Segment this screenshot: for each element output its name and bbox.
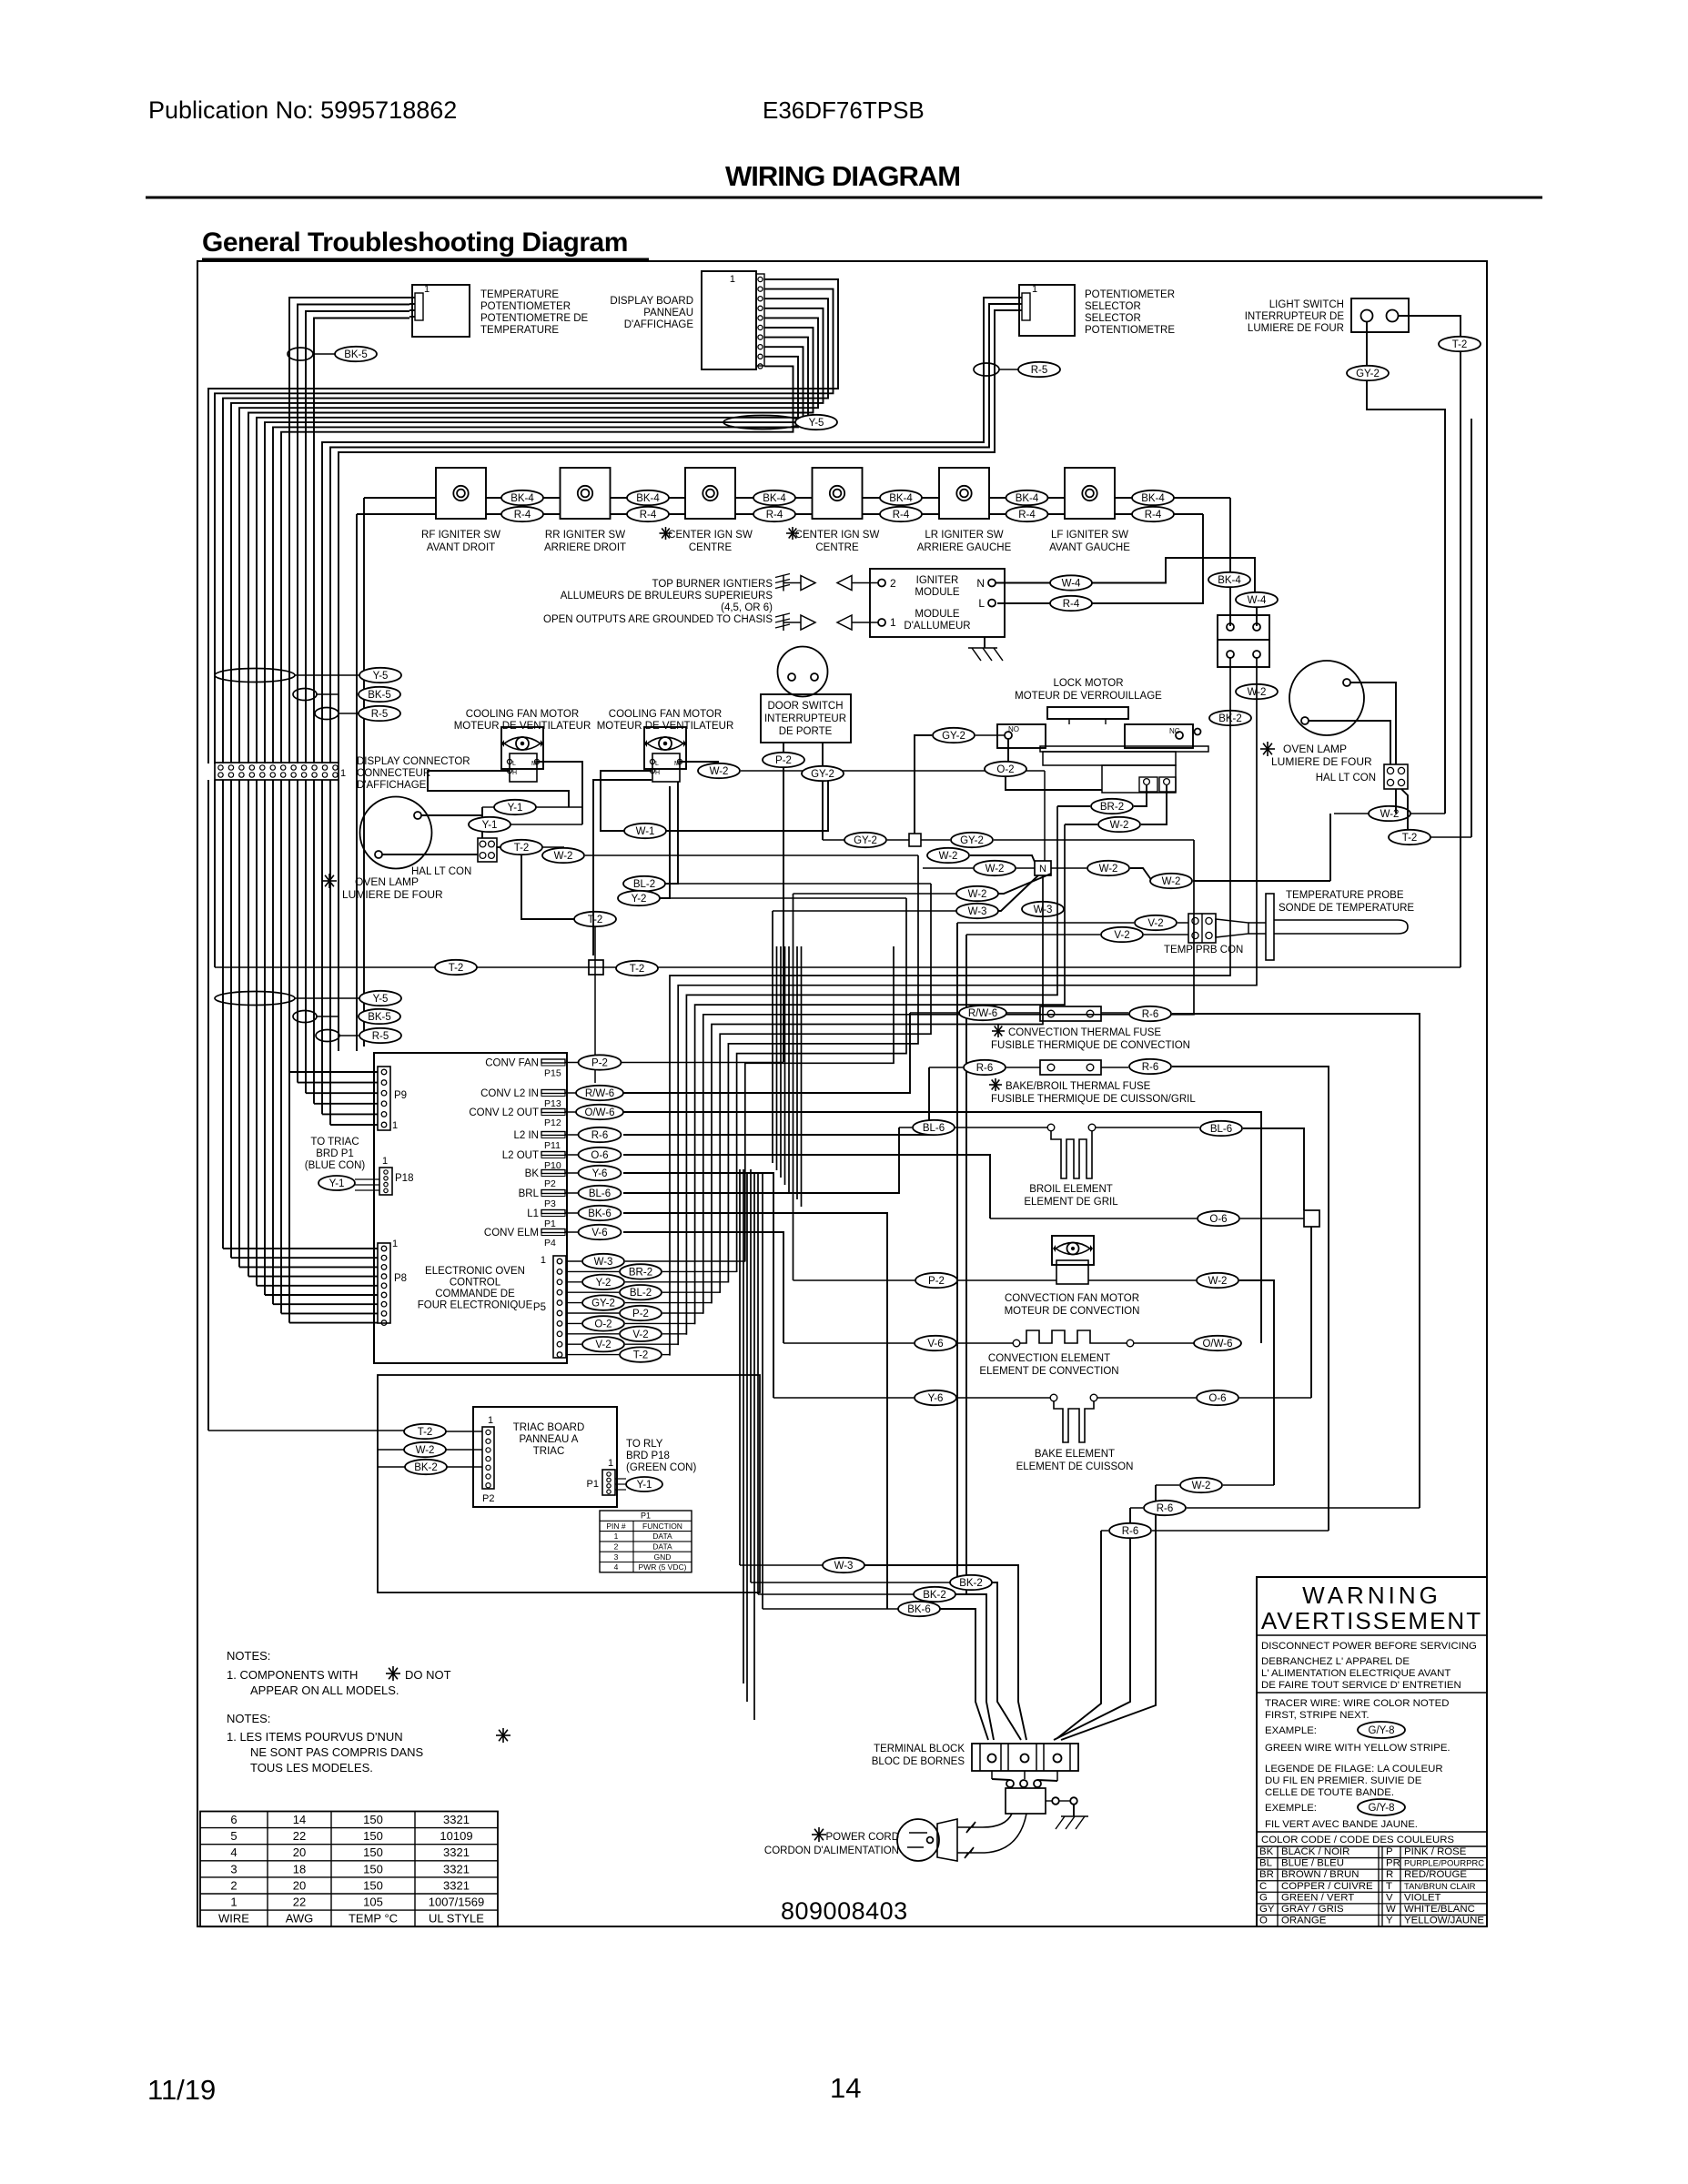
svg-text:T: T [1386, 1881, 1392, 1892]
svg-text:ELECTRONIC OVEN: ELECTRONIC OVEN [425, 1266, 525, 1277]
svg-text:COMMANDE DE: COMMANDE DE [435, 1289, 515, 1299]
svg-text:BROWN / BRUN: BROWN / BRUN [1281, 1869, 1359, 1880]
svg-text:W-2: W-2 [710, 766, 729, 777]
svg-text:BK-4: BK-4 [510, 493, 534, 504]
svg-text:MOTEUR DE VERROUILLAGE: MOTEUR DE VERROUILLAGE [1015, 691, 1162, 702]
svg-text:20: 20 [293, 1845, 306, 1859]
svg-text:Publication No: 5995718862: Publication No: 5995718862 [148, 96, 457, 124]
svg-text:V-6: V-6 [927, 1339, 943, 1350]
svg-text:GY-2: GY-2 [960, 835, 984, 846]
svg-text:22: 22 [293, 1829, 306, 1843]
svg-text:VIOLET: VIOLET [1404, 1892, 1441, 1903]
svg-text:PANNEAU A: PANNEAU A [520, 1434, 579, 1445]
svg-text:LUMIERE DE FOUR: LUMIERE DE FOUR [342, 888, 443, 901]
svg-text:P1: P1 [544, 1218, 556, 1229]
svg-text:R-5: R-5 [1031, 365, 1048, 376]
svg-text:TRIAC: TRIAC [533, 1446, 565, 1457]
svg-text:DO NOT: DO NOT [405, 1668, 451, 1682]
svg-text:PWR (5 VDC): PWR (5 VDC) [639, 1562, 687, 1572]
svg-text:IGNITER: IGNITER [916, 575, 959, 586]
svg-text:GREEN WIRE WITH YELLOW STRIPE.: GREEN WIRE WITH YELLOW STRIPE. [1265, 1743, 1450, 1754]
svg-text:BK-5: BK-5 [344, 349, 368, 360]
svg-text:BK-2: BK-2 [959, 1578, 983, 1589]
svg-text:ORANGE: ORANGE [1281, 1916, 1327, 1926]
svg-text:DU FIL EN PREMIER. SUIVI: DU FIL EN PREMIER. SUIVIE DE [1265, 1775, 1422, 1786]
svg-text:DISPLAY CONNECTOR: DISPLAY CONNECTOR [357, 756, 470, 767]
svg-text:(4,5, OR 6): (4,5, OR 6) [721, 602, 773, 613]
svg-text:P15: P15 [544, 1068, 561, 1079]
svg-text:W-2: W-2 [939, 851, 958, 862]
svg-text:L: L [655, 761, 659, 767]
svg-text:CONV ELM: CONV ELM [484, 1228, 539, 1239]
svg-text:150: 150 [363, 1813, 383, 1826]
svg-text:P18: P18 [395, 1173, 413, 1184]
svg-text:BL-6: BL-6 [1210, 1124, 1232, 1135]
svg-text:1: 1 [730, 274, 735, 285]
svg-text:14: 14 [293, 1813, 306, 1826]
svg-text:11/19: 11/19 [147, 2074, 216, 2106]
svg-text:LOCK MOTOR: LOCK MOTOR [1053, 678, 1123, 689]
svg-text:T-2: T-2 [514, 843, 530, 854]
svg-text:MODULE: MODULE [915, 609, 960, 620]
svg-text:BLUE / BLEU: BLUE / BLEU [1281, 1858, 1344, 1869]
svg-text:AWG: AWG [286, 1912, 314, 1926]
svg-text:MOTEUR DE VENTILATEUR: MOTEUR DE VENTILATEUR [597, 721, 734, 732]
svg-text:FOUR ELECTRONIQUE: FOUR ELECTRONIQUE [418, 1300, 533, 1311]
svg-text:W: W [1386, 1904, 1396, 1915]
svg-text:1: 1 [1032, 284, 1037, 295]
svg-text:W-2: W-2 [554, 851, 573, 862]
svg-text:R: R [1386, 1869, 1393, 1880]
svg-text:R-4: R-4 [514, 510, 531, 521]
svg-text:CORDON D'ALIMENTATION: CORDON D'ALIMENTATION [764, 1845, 899, 1856]
svg-text:PANNEAU: PANNEAU [643, 308, 693, 318]
svg-text:DISPLAY BOARD: DISPLAY BOARD [610, 296, 693, 307]
svg-text:E36DF76TPSB: E36DF76TPSB [763, 96, 925, 124]
svg-text:GREEN / VERT: GREEN / VERT [1281, 1892, 1354, 1903]
svg-text:PIN #: PIN # [606, 1522, 626, 1531]
svg-text:BK-5: BK-5 [368, 690, 391, 701]
svg-text:TOUS LES MODELES.: TOUS LES MODELES. [250, 1761, 373, 1774]
svg-text:W-2: W-2 [1208, 1276, 1228, 1287]
svg-text:BAKE ELEMENT: BAKE ELEMENT [1035, 1449, 1115, 1460]
svg-text:G/Y-8: G/Y-8 [1369, 1725, 1395, 1736]
svg-text:10109: 10109 [440, 1829, 472, 1843]
svg-text:MOTEUR DE VENTILATEUR: MOTEUR DE VENTILATEUR [454, 721, 591, 732]
svg-text:CONVECTION THERMAL FUSE: CONVECTION THERMAL FUSE [1008, 1027, 1161, 1038]
svg-text:20: 20 [293, 1878, 306, 1892]
svg-text:LEGENDE DE FILAGE: LA COULEU: LEGENDE DE FILAGE: LA COULEUR [1265, 1764, 1443, 1774]
svg-text:BK: BK [525, 1168, 540, 1179]
svg-text:P9: P9 [394, 1090, 407, 1101]
svg-text:150: 150 [363, 1845, 383, 1859]
svg-text:P3: P3 [544, 1198, 556, 1209]
svg-text:BAKE/BROIL THERMAL FUSE: BAKE/BROIL THERMAL FUSE [1006, 1081, 1151, 1092]
svg-text:DE PORTE: DE PORTE [779, 726, 833, 737]
svg-text:M: M [674, 761, 680, 767]
svg-text:3: 3 [230, 1862, 237, 1876]
svg-text:W-2: W-2 [1099, 864, 1118, 875]
svg-text:T-2: T-2 [449, 963, 464, 974]
svg-text:W-3: W-3 [834, 1561, 854, 1572]
svg-text:(BLUE CON): (BLUE CON) [305, 1160, 366, 1171]
svg-text:3321: 3321 [443, 1845, 470, 1859]
svg-text:(GREEN CON): (GREEN CON) [626, 1462, 696, 1473]
svg-text:G: G [1259, 1892, 1268, 1903]
svg-text:BRD P18: BRD P18 [626, 1451, 670, 1461]
svg-text:ARRIERE GAUCHE: ARRIERE GAUCHE [917, 542, 1012, 553]
svg-text:P11: P11 [544, 1140, 561, 1151]
svg-text:POTENTIOMETER: POTENTIOMETER [480, 301, 571, 312]
svg-text:T-2: T-2 [588, 915, 603, 925]
svg-text:ARRIERE DROIT: ARRIERE DROIT [544, 542, 626, 553]
svg-text:O-6: O-6 [591, 1150, 608, 1161]
svg-text:GY-2: GY-2 [1356, 369, 1380, 379]
svg-text:INTERRUPTEUR: INTERRUPTEUR [764, 713, 846, 724]
svg-text:L' ALIMENTATION ELECTRIQUE: L' ALIMENTATION ELECTRIQUE AVANT [1261, 1668, 1450, 1679]
svg-text:BK-4: BK-4 [1218, 575, 1241, 586]
svg-text:CONV L2 IN: CONV L2 IN [480, 1088, 539, 1099]
svg-text:GRAY / GRIS: GRAY / GRIS [1281, 1904, 1344, 1915]
svg-text:1: 1 [608, 1458, 613, 1469]
svg-text:BLOC DE BORNES: BLOC DE BORNES [872, 1756, 965, 1767]
svg-text:OVEN LAMP: OVEN LAMP [1283, 743, 1347, 755]
svg-text:EXAMPLE:: EXAMPLE: [1265, 1725, 1317, 1736]
svg-text:1: 1 [230, 1896, 237, 1909]
svg-text:R-6: R-6 [1142, 1062, 1159, 1073]
svg-text:R-4: R-4 [893, 510, 910, 521]
svg-text:CONVECTION ELEMENT: CONVECTION ELEMENT [988, 1353, 1110, 1364]
svg-text:1: 1 [392, 1120, 398, 1131]
svg-text:BR-2: BR-2 [629, 1267, 652, 1278]
svg-text:150: 150 [363, 1862, 383, 1876]
svg-text:R-5: R-5 [372, 1031, 389, 1042]
svg-text:PR: PR [1386, 1858, 1400, 1869]
svg-text:R-4: R-4 [1063, 599, 1080, 610]
svg-text:PINK / ROSE: PINK / ROSE [1404, 1846, 1467, 1857]
svg-text:OVEN LAMP: OVEN LAMP [355, 875, 419, 888]
svg-text:W-3: W-3 [594, 1257, 613, 1268]
svg-text:3321: 3321 [443, 1813, 470, 1826]
svg-text:Y-1: Y-1 [508, 803, 523, 814]
svg-text:ELEMENT DE CUISSON: ELEMENT DE CUISSON [1016, 1461, 1134, 1472]
svg-text:TOP BURNER IGNTIERS: TOP BURNER IGNTIERS [652, 579, 773, 590]
svg-text:LUMIERE DE FOUR: LUMIERE DE FOUR [1271, 755, 1372, 768]
svg-text:BRL: BRL [519, 1188, 540, 1199]
svg-text:DOOR SWITCH: DOOR SWITCH [767, 701, 843, 712]
svg-text:MODULE: MODULE [915, 587, 960, 598]
svg-text:V: V [1386, 1892, 1393, 1903]
svg-text:COLOR CODE / CODE DES COUL: COLOR CODE / CODE DES COULEURS [1261, 1835, 1454, 1845]
svg-text:M: M [531, 761, 537, 767]
svg-text:BK-2: BK-2 [414, 1462, 438, 1473]
svg-text:WIRING DIAGRAM: WIRING DIAGRAM [725, 160, 960, 192]
svg-text:DEBRANCHEZ L' APPAREL DE: DEBRANCHEZ L' APPAREL DE [1261, 1656, 1410, 1667]
svg-text:GY-2: GY-2 [591, 1299, 615, 1309]
svg-text:Y-1: Y-1 [637, 1480, 652, 1491]
svg-text:O-6: O-6 [1209, 1214, 1227, 1225]
svg-text:GY-2: GY-2 [942, 731, 965, 742]
svg-text:BK-2: BK-2 [923, 1590, 946, 1601]
svg-text:NE SONT PAS COMPRIS DANS: NE SONT PAS COMPRIS DANS [250, 1745, 424, 1759]
svg-text:TEMP PRB CON: TEMP PRB CON [1164, 945, 1243, 955]
svg-text:BL-6: BL-6 [589, 1188, 611, 1199]
svg-text:N: N [1039, 864, 1046, 875]
svg-text:P-2: P-2 [928, 1276, 945, 1287]
svg-text:W-2: W-2 [416, 1445, 435, 1456]
svg-text:BK-6: BK-6 [907, 1604, 931, 1615]
svg-text:1: 1 [890, 616, 896, 629]
svg-text:O-6: O-6 [1208, 1393, 1226, 1404]
svg-text:TO TRIAC: TO TRIAC [310, 1137, 359, 1148]
svg-text:NOTES:: NOTES: [227, 1712, 270, 1725]
svg-text:R/W-6: R/W-6 [585, 1088, 614, 1099]
svg-text:Y-6: Y-6 [592, 1168, 608, 1179]
svg-text:P-2: P-2 [632, 1309, 649, 1319]
svg-text:N: N [976, 577, 985, 590]
svg-text:R/W-6: R/W-6 [968, 1008, 997, 1019]
svg-text:YELLOW/JAUNE: YELLOW/JAUNE [1404, 1916, 1484, 1926]
svg-text:D'AFFICHAGE: D'AFFICHAGE [624, 319, 694, 330]
svg-text:COOLING FAN MOTOR: COOLING FAN MOTOR [466, 709, 579, 720]
svg-text:FUNCTION: FUNCTION [642, 1522, 682, 1531]
svg-text:LUMIERE DE FOUR: LUMIERE DE FOUR [1248, 323, 1344, 334]
svg-text:AVANT GAUCHE: AVANT GAUCHE [1049, 542, 1130, 553]
svg-text:COPPER / CUIVRE: COPPER / CUIVRE [1281, 1881, 1373, 1892]
svg-text:P: P [1386, 1846, 1393, 1857]
svg-text:BK-4: BK-4 [1016, 493, 1039, 504]
svg-text:WARNING: WARNING [1302, 1582, 1441, 1609]
svg-text:2: 2 [230, 1878, 237, 1892]
svg-text:CENTRE: CENTRE [689, 542, 733, 553]
svg-text:1: 1 [541, 1255, 546, 1266]
svg-text:P1: P1 [641, 1512, 651, 1521]
svg-text:O-2: O-2 [594, 1319, 612, 1330]
svg-text:3321: 3321 [443, 1862, 470, 1876]
svg-text:105: 105 [363, 1896, 383, 1909]
svg-text:2: 2 [614, 1542, 619, 1552]
svg-text:1: 1 [488, 1415, 493, 1426]
svg-text:BK-4: BK-4 [636, 493, 660, 504]
svg-text:L2 OUT: L2 OUT [502, 1150, 539, 1161]
svg-text:BRD P1: BRD P1 [316, 1148, 354, 1159]
svg-text:PURPLE/POURPRC: PURPLE/POURPRC [1404, 1859, 1484, 1869]
svg-text:V-2: V-2 [595, 1340, 611, 1350]
svg-text:POTENTIOMETRE DE: POTENTIOMETRE DE [480, 313, 589, 324]
svg-text:BK-4: BK-4 [889, 493, 913, 504]
svg-text:DISCONNECT POWER BEFORE SERVIC: DISCONNECT POWER BEFORE SERVICING [1261, 1641, 1477, 1652]
svg-text:TEMPERATURE PROBE: TEMPERATURE PROBE [1286, 890, 1404, 901]
svg-text:R-4: R-4 [640, 510, 657, 521]
svg-text:V-2: V-2 [1114, 930, 1129, 941]
svg-text:W-3: W-3 [968, 906, 987, 917]
svg-text:T-2: T-2 [1452, 339, 1468, 350]
svg-text:DATA: DATA [652, 1532, 672, 1541]
svg-text:FUSIBLE THERMIQUE DE CUISSON/G: FUSIBLE THERMIQUE DE CUISSON/GRIL [991, 1094, 1196, 1105]
svg-text:1: 1 [424, 284, 430, 295]
svg-text:BL-6: BL-6 [923, 1123, 945, 1134]
svg-text:R-4: R-4 [766, 510, 783, 521]
svg-text:CONTROL: CONTROL [450, 1278, 501, 1289]
svg-text:SELECTOR: SELECTOR [1085, 313, 1141, 324]
svg-text:P5: P5 [533, 1302, 546, 1313]
svg-text:H: H [512, 770, 517, 776]
svg-text:TRIAC BOARD: TRIAC BOARD [513, 1422, 585, 1433]
svg-text:INTERRUPTEUR DE: INTERRUPTEUR DE [1245, 311, 1345, 322]
svg-text:Y-6: Y-6 [928, 1393, 944, 1404]
svg-text:FIRST, STRIPE NEXT.: FIRST, STRIPE NEXT. [1265, 1710, 1370, 1721]
svg-text:H: H [655, 770, 660, 776]
svg-text:P4: P4 [544, 1238, 556, 1249]
svg-text:CONVECTION FAN MOTOR: CONVECTION FAN MOTOR [1005, 1293, 1139, 1304]
svg-text:TRACER WIRE: WIRE COLOR NOT: TRACER WIRE: WIRE COLOR NOTED [1265, 1698, 1450, 1709]
svg-text:CENTER IGN SW: CENTER IGN SW [795, 530, 880, 541]
svg-text:V-2: V-2 [632, 1330, 648, 1340]
svg-text:P12: P12 [544, 1117, 561, 1128]
svg-text:NOTES:: NOTES: [227, 1649, 270, 1663]
svg-text:R-4: R-4 [1018, 510, 1036, 521]
svg-text:LIGHT SWITCH: LIGHT SWITCH [1269, 299, 1344, 310]
svg-text:GY-2: GY-2 [811, 769, 834, 780]
svg-text:WIRE: WIRE [218, 1912, 249, 1926]
svg-text:4: 4 [614, 1562, 619, 1572]
svg-text:APPEAR ON ALL MODELS.: APPEAR ON ALL MODELS. [250, 1683, 399, 1697]
svg-text:P1: P1 [587, 1479, 599, 1490]
svg-text:BL-2: BL-2 [633, 879, 655, 890]
svg-text:R-5: R-5 [371, 709, 389, 720]
svg-text:R-6: R-6 [976, 1063, 994, 1074]
svg-text:P8: P8 [394, 1273, 407, 1284]
svg-text:4: 4 [230, 1845, 237, 1859]
svg-text:CONNECTEUR: CONNECTEUR [357, 768, 430, 779]
svg-text:T-2: T-2 [1402, 833, 1418, 844]
svg-text:P-2: P-2 [775, 755, 792, 766]
svg-text:O/W-6: O/W-6 [1202, 1339, 1232, 1350]
svg-text:1. LES ITEMS POURVUS D'NUN: 1. LES ITEMS POURVUS D'NUN [227, 1730, 403, 1744]
svg-text:L1: L1 [527, 1208, 539, 1219]
svg-text:BROIL ELEMENT: BROIL ELEMENT [1029, 1184, 1113, 1195]
svg-text:L: L [978, 597, 985, 610]
svg-text:POTENTIOMETRE: POTENTIOMETRE [1085, 325, 1175, 336]
svg-text:P13: P13 [544, 1098, 561, 1109]
svg-text:BK-4: BK-4 [763, 493, 786, 504]
svg-text:W-2: W-2 [1192, 1481, 1211, 1491]
svg-text:CONV L2 OUT: CONV L2 OUT [469, 1107, 539, 1118]
svg-text:1: 1 [392, 1239, 398, 1249]
svg-text:RED/ROUGE: RED/ROUGE [1404, 1869, 1467, 1880]
svg-text:14: 14 [830, 2072, 861, 2104]
svg-text:TAN/BRUN CLAIR: TAN/BRUN CLAIR [1404, 1882, 1476, 1892]
svg-text:5: 5 [230, 1829, 237, 1843]
svg-text:R-6: R-6 [1157, 1503, 1174, 1514]
svg-text:POWER CORD: POWER CORD [826, 1832, 900, 1843]
svg-text:LF IGNITER SW: LF IGNITER SW [1051, 530, 1128, 541]
svg-text:DATA: DATA [652, 1542, 672, 1552]
svg-text:2: 2 [890, 577, 896, 590]
svg-text:POTENTIOMETER: POTENTIOMETER [1085, 289, 1175, 300]
svg-text:3: 3 [614, 1552, 619, 1562]
svg-text:FIL VERT AVEC BANDE JA: FIL VERT AVEC BANDE JAUNE. [1265, 1819, 1418, 1830]
svg-text:ELEMENT DE GRIL: ELEMENT DE GRIL [1024, 1197, 1118, 1208]
svg-text:BL-2: BL-2 [630, 1288, 652, 1299]
svg-text:22: 22 [293, 1896, 306, 1909]
svg-text:TO RLY: TO RLY [626, 1439, 663, 1450]
svg-text:W-4: W-4 [1248, 595, 1267, 606]
svg-text:18: 18 [293, 1862, 306, 1876]
svg-text:TEMPERATURE: TEMPERATURE [480, 289, 559, 300]
svg-text:CELLE DE TOUTE BANDE.: CELLE DE TOUTE BANDE. [1265, 1787, 1394, 1798]
svg-text:O-2: O-2 [996, 764, 1014, 775]
svg-text:CENTER IGN SW: CENTER IGN SW [668, 530, 753, 541]
svg-text:Y-2: Y-2 [596, 1278, 612, 1289]
svg-text:Y: Y [1386, 1916, 1393, 1926]
svg-text:UL STYLE: UL STYLE [429, 1912, 484, 1926]
svg-text:AVANT DROIT: AVANT DROIT [427, 542, 495, 553]
svg-text:1: 1 [382, 1156, 388, 1167]
svg-text:BK-4: BK-4 [1141, 493, 1165, 504]
svg-text:3321: 3321 [443, 1878, 470, 1892]
svg-text:6: 6 [230, 1813, 237, 1826]
svg-text:809008403: 809008403 [781, 1897, 908, 1925]
svg-text:Y-1: Y-1 [329, 1178, 345, 1189]
svg-text:W-2: W-2 [1110, 820, 1129, 831]
svg-text:O: O [1259, 1916, 1268, 1926]
svg-text:WHITE/BLANC: WHITE/BLANC [1404, 1904, 1475, 1915]
svg-text:MOTEUR DE CONVECTION: MOTEUR DE CONVECTION [1005, 1306, 1140, 1317]
svg-text:TERMINAL BLOCK: TERMINAL BLOCK [874, 1744, 965, 1754]
svg-text:150: 150 [363, 1878, 383, 1892]
svg-text:ALLUMEURS DE BRULEURS SUPERIEU: ALLUMEURS DE BRULEURS SUPERIEURS [561, 591, 773, 602]
svg-text:P2: P2 [482, 1493, 494, 1504]
svg-text:L: L [512, 761, 516, 767]
svg-text:P2: P2 [544, 1178, 556, 1189]
svg-text:BK: BK [1259, 1846, 1274, 1857]
svg-text:T-2: T-2 [630, 964, 645, 975]
svg-text:G/Y-8: G/Y-8 [1369, 1803, 1395, 1814]
svg-text:FUSIBLE THERMIQUE DE CONVECTIO: FUSIBLE THERMIQUE DE CONVECTION [991, 1040, 1190, 1051]
svg-text:D'ALLUMEUR: D'ALLUMEUR [904, 621, 970, 632]
svg-text:1. COMPONENTS WITH: 1. COMPONENTS WITH [227, 1668, 358, 1682]
svg-text:C: C [1259, 1881, 1267, 1892]
svg-text:L2 IN: L2 IN [514, 1130, 540, 1141]
svg-text:General Troubleshooting Diagra: General Troubleshooting Diagram [202, 227, 628, 258]
svg-text:1: 1 [340, 768, 346, 779]
svg-text:SONDE DE TEMPERATURE: SONDE DE TEMPERATURE [1279, 903, 1414, 914]
svg-text:BK-6: BK-6 [588, 1208, 612, 1219]
svg-text:W-4: W-4 [1062, 579, 1081, 590]
svg-text:R-6: R-6 [591, 1130, 609, 1141]
svg-text:D'AFFICHAGE: D'AFFICHAGE [357, 780, 427, 791]
svg-text:W-2: W-2 [1162, 876, 1181, 887]
svg-text:W-2: W-2 [986, 864, 1005, 875]
svg-text:DE FAIRE TOUT SERVICE D' E: DE FAIRE TOUT SERVICE D' ENTRETIEN [1261, 1680, 1461, 1691]
svg-text:GY: GY [1259, 1904, 1275, 1915]
svg-text:R-4: R-4 [1145, 510, 1162, 521]
svg-text:TEMPERATURE: TEMPERATURE [480, 325, 559, 336]
svg-text:CENTRE: CENTRE [815, 542, 859, 553]
svg-text:AVERTISSEMENT: AVERTISSEMENT [1261, 1607, 1482, 1634]
svg-text:CONV FAN: CONV FAN [485, 1058, 539, 1069]
svg-text:EXEMPLE:: EXEMPLE: [1265, 1803, 1317, 1814]
svg-text:BK-5: BK-5 [368, 1012, 391, 1023]
svg-text:BLACK / NOIR: BLACK / NOIR [1281, 1846, 1349, 1857]
svg-text:P-2: P-2 [591, 1058, 608, 1069]
svg-text:T-2: T-2 [633, 1350, 649, 1361]
svg-text:RR IGNITER SW: RR IGNITER SW [545, 530, 625, 541]
svg-text:BL: BL [1259, 1858, 1272, 1869]
svg-text:V-6: V-6 [591, 1228, 607, 1239]
svg-text:W-2: W-2 [968, 889, 987, 900]
